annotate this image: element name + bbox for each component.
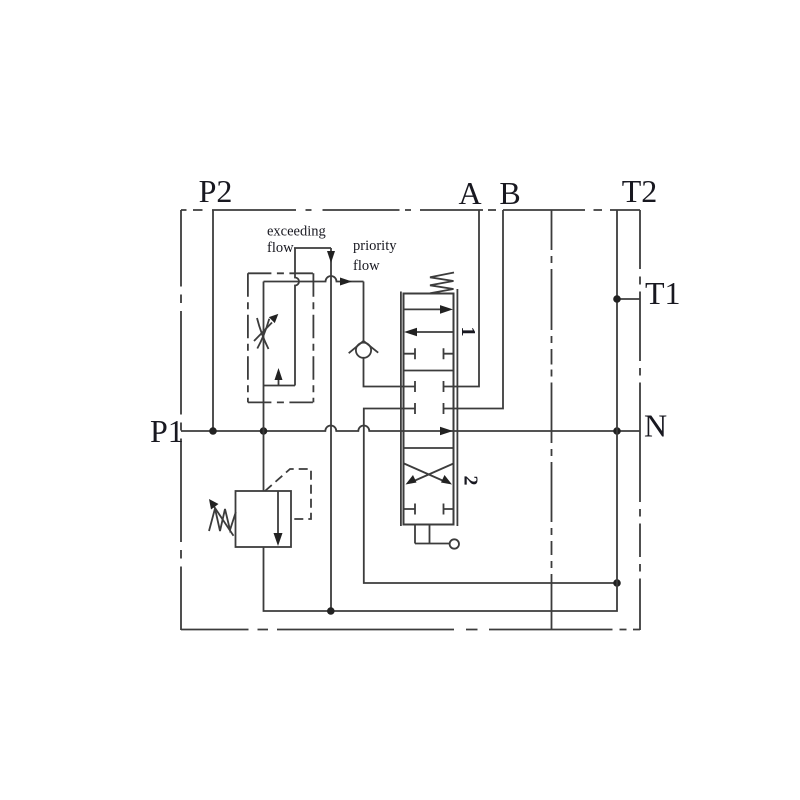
junction tank gallery bbox=[613, 579, 621, 587]
check valve ball bbox=[356, 343, 371, 358]
arrow neutral carryover right bbox=[440, 427, 453, 436]
flow restrictor arcs bbox=[257, 318, 269, 349]
wire port B drop bbox=[454, 210, 504, 409]
svg-text:A: A bbox=[458, 175, 481, 211]
arrow relief spring adjust bbox=[209, 499, 234, 536]
arrow relief flow path bbox=[274, 492, 283, 547]
blocked port row pos2 bbox=[404, 504, 454, 515]
arrow restrictor adjust bbox=[254, 314, 278, 341]
wire check valve top bbox=[363, 282, 365, 342]
junction N/T line bbox=[613, 427, 621, 435]
spool pilot box below bbox=[415, 525, 450, 544]
arrow priority flow right bbox=[340, 278, 352, 286]
spool pos2 crossed arrows bbox=[404, 464, 454, 485]
relief pilot line (dashed) bbox=[265, 469, 311, 519]
flow control valve enclosure (dash-dot box) bbox=[248, 272, 314, 274]
spool drain circle bbox=[450, 539, 459, 548]
junction P1 supply to flow valve bbox=[260, 427, 268, 435]
svg-text:T2: T2 bbox=[622, 173, 658, 209]
svg-text:priority: priority bbox=[353, 238, 397, 254]
blocked port row pos1 bbox=[404, 348, 454, 359]
check valve seat bbox=[349, 341, 379, 353]
spool valve section divider 1 bbox=[404, 370, 454, 372]
blocked port row neutral bottom bbox=[404, 403, 454, 414]
svg-text:1: 1 bbox=[457, 327, 479, 337]
relief valve body bbox=[236, 491, 292, 547]
wire exceeding flow riser (hops over priority line) bbox=[295, 248, 299, 386]
wire relief inlet bbox=[263, 431, 265, 491]
wire P2 drop line bbox=[212, 210, 214, 431]
junction exceeding to tank bbox=[327, 607, 335, 615]
wire valve left lower port to tank gallery bbox=[364, 409, 617, 584]
wire T1 stub bbox=[617, 298, 640, 300]
svg-text:flow: flow bbox=[267, 240, 294, 256]
svg-text:P2: P2 bbox=[199, 173, 233, 209]
svg-text:B: B bbox=[499, 175, 520, 211]
arrow spool pos1 left bbox=[404, 328, 454, 337]
spool valve section divider 2 bbox=[404, 447, 454, 449]
arrow exceeding internal up bbox=[275, 368, 283, 386]
wire exceeding flow label lead bbox=[294, 247, 331, 249]
svg-text:2: 2 bbox=[460, 476, 482, 486]
wire T2 line vertical and bottom return bbox=[264, 210, 618, 611]
wire flow-valve supply vertical bbox=[263, 282, 265, 432]
block boundary left (dash-dot) bbox=[180, 210, 182, 630]
wire exceeding flow drop to tank line bbox=[330, 248, 332, 611]
block boundary top (dash-dot) bbox=[181, 209, 640, 211]
block boundary right (dash-dot) bbox=[639, 210, 641, 630]
arrow exceeding flow down bbox=[327, 251, 335, 263]
svg-text:flow: flow bbox=[353, 258, 380, 274]
svg-text:T1: T1 bbox=[645, 275, 681, 311]
wire check valve bottom to valve port bbox=[364, 358, 404, 387]
junction T1 bbox=[613, 295, 621, 303]
spool valve right rail bbox=[456, 289, 458, 526]
wire flow valve bottom link bbox=[264, 385, 296, 387]
block boundary bottom (dash-dot) bbox=[181, 629, 640, 631]
wire port A drop bbox=[454, 210, 480, 387]
spool valve left rail bbox=[400, 292, 402, 527]
spool valve body bbox=[404, 294, 454, 525]
svg-text:exceeding: exceeding bbox=[267, 224, 326, 240]
spool valve return spring bbox=[430, 273, 454, 294]
svg-text:N: N bbox=[644, 408, 667, 444]
junction P2/P1 bbox=[209, 427, 217, 435]
blocked port row neutral top bbox=[404, 381, 454, 392]
wire P1-N main gallery with hops bbox=[181, 426, 640, 431]
arrow spool pos1 right bbox=[404, 305, 453, 314]
svg-text:P1: P1 bbox=[150, 413, 184, 449]
relief spring bbox=[209, 509, 236, 532]
wire priority flow output with hop bbox=[264, 276, 364, 282]
section centerline (dash-dot vertical) bbox=[551, 210, 553, 630]
